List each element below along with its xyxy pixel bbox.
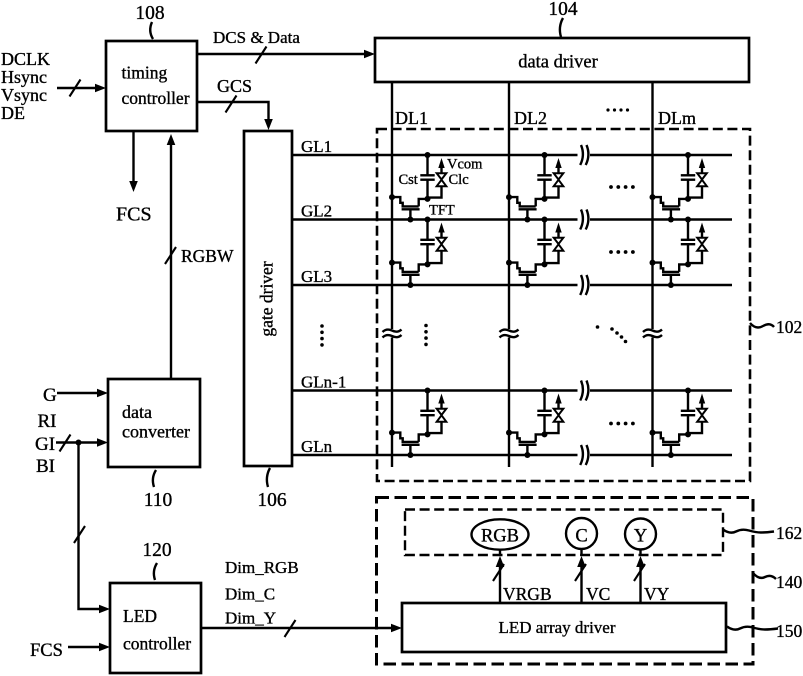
vertical ellipsis in DL1 column bbox=[424, 324, 428, 347]
liquid crystal capacitor Clc (hourglass) bbox=[437, 409, 447, 422]
svg-text:GLn-1: GLn-1 bbox=[301, 373, 346, 392]
data converter U110 box bbox=[108, 379, 200, 467]
wire: FCS output arrow from timing controller bbox=[129, 131, 138, 192]
TFT transistor bbox=[650, 430, 687, 458]
data line DL2 bbox=[500, 82, 519, 467]
gate line GLn-1 bbox=[292, 381, 732, 401]
storage capacitor Cst bbox=[537, 175, 551, 179]
TFT transistor bbox=[389, 260, 426, 288]
wire: Cst bottom to pixel node bbox=[542, 180, 548, 202]
svg-text:106: 106 bbox=[257, 490, 287, 511]
label 140 bbox=[776, 572, 803, 592]
svg-text:timing: timing bbox=[122, 63, 168, 83]
label DLm bbox=[658, 108, 696, 128]
wire: GCS from timing controller to gate driver bbox=[197, 96, 273, 131]
leader squiggle for 140 bbox=[753, 573, 776, 579]
wire: G input arrow into data converter bbox=[57, 389, 108, 398]
LED controller U120 box bbox=[110, 583, 201, 673]
wire: DCS & Data bus from timing controller to data driver bbox=[197, 47, 375, 64]
svg-text:VY: VY bbox=[644, 584, 670, 604]
leader squiggle for 150 bbox=[727, 627, 778, 630]
Vcom arrow bbox=[699, 223, 705, 238]
wire: Clc to pixel node bbox=[688, 186, 702, 197]
svg-text:Y: Y bbox=[634, 527, 647, 547]
leader tick for 106 bbox=[267, 468, 270, 487]
svg-text:VC: VC bbox=[586, 584, 610, 604]
svg-text:gate driver: gate driver bbox=[257, 261, 277, 336]
label DL1 bbox=[395, 108, 428, 128]
pixel cell row 2 col 2 bbox=[506, 217, 563, 289]
svg-text:120: 120 bbox=[142, 540, 171, 561]
svg-text:GLn: GLn bbox=[301, 437, 333, 456]
pixel cell row 1 col 1 bbox=[389, 152, 483, 223]
wire: Cst connection to gate line above bbox=[685, 217, 691, 240]
wire: Clc to pixel node bbox=[545, 186, 559, 197]
storage capacitor Cst bbox=[681, 175, 695, 179]
wire: dimming bus from LED controller to LED array driver bbox=[201, 620, 402, 637]
pixel cell row 1 col 2 bbox=[506, 152, 563, 223]
svg-text:150: 150 bbox=[776, 621, 803, 641]
svg-text:Cst: Cst bbox=[398, 172, 417, 188]
pixel cell row 3 col 3 bbox=[650, 388, 707, 459]
TFT transistor bbox=[389, 430, 426, 458]
label GLn-1 bbox=[301, 373, 346, 392]
label FCS (top) bbox=[116, 204, 152, 226]
Vcom arrow bbox=[438, 394, 444, 409]
leader tick for 104 bbox=[560, 18, 563, 37]
svg-text:Dim_Y: Dim_Y bbox=[225, 609, 276, 628]
svg-text:controller: controller bbox=[123, 634, 191, 654]
svg-text:162: 162 bbox=[776, 523, 802, 543]
wire: Clc to pixel node bbox=[545, 422, 559, 433]
label G input bbox=[43, 385, 57, 406]
liquid crystal capacitor Clc (hourglass) bbox=[437, 238, 447, 251]
node: junction on RGB input bus bbox=[76, 440, 82, 446]
svg-text:DE: DE bbox=[1, 103, 25, 123]
liquid crystal capacitor Clc (hourglass) bbox=[697, 173, 707, 186]
storage capacitor Cst bbox=[420, 411, 434, 415]
svg-text:GI: GI bbox=[35, 434, 55, 455]
label GL2 bbox=[301, 202, 332, 221]
gate line GL2 bbox=[292, 210, 732, 230]
wire: VRGB from LED array driver up to RGB bbox=[493, 556, 504, 603]
wire: Cst bottom to pixel node bbox=[685, 245, 691, 268]
data driver U104 box bbox=[375, 38, 749, 82]
wire: stub below Y circle bbox=[639, 550, 641, 557]
svg-text:G: G bbox=[43, 385, 57, 406]
Vcom arrow bbox=[699, 394, 705, 409]
labels RI GI BI inputs bbox=[35, 411, 57, 477]
svg-text:LED: LED bbox=[123, 606, 157, 626]
data line DL1 bbox=[383, 82, 402, 467]
Vcom arrow bbox=[438, 223, 444, 238]
label GL3 bbox=[301, 267, 332, 286]
wire: Clc to pixel node bbox=[545, 251, 559, 263]
storage capacitor Cst bbox=[681, 240, 695, 244]
wire: Cst connection to gate line above bbox=[542, 388, 548, 411]
wire: Cst connection to gate line above bbox=[685, 152, 691, 175]
liquid crystal capacitor Clc (hourglass) bbox=[554, 238, 564, 251]
input signal labels DCLK Hsync Vsync DE bbox=[1, 49, 50, 123]
label 150 bbox=[776, 621, 803, 641]
svg-text:data driver: data driver bbox=[518, 53, 598, 73]
svg-text:GL2: GL2 bbox=[301, 202, 332, 221]
svg-text:DCLK: DCLK bbox=[1, 49, 50, 69]
gate driver U106 box bbox=[244, 131, 292, 466]
label 120 bbox=[142, 540, 171, 561]
storage capacitor Cst bbox=[537, 240, 551, 244]
label 108 bbox=[135, 3, 164, 24]
leader tick for 110 bbox=[153, 470, 156, 487]
svg-text:Dim_C: Dim_C bbox=[225, 585, 275, 604]
dashed panel box 102 bbox=[377, 129, 750, 481]
liquid crystal capacitor Clc (hourglass) bbox=[697, 409, 707, 422]
wire: Cst bottom to pixel node bbox=[425, 180, 431, 202]
svg-text:102: 102 bbox=[776, 317, 802, 337]
svg-text:RI: RI bbox=[38, 411, 57, 432]
svg-text:BI: BI bbox=[36, 456, 55, 477]
label 106 bbox=[257, 490, 287, 511]
storage capacitor Cst bbox=[420, 240, 434, 244]
wire: Clc to pixel node bbox=[688, 251, 702, 263]
wire: Cst connection to gate line above bbox=[685, 388, 691, 411]
svg-text:GL3: GL3 bbox=[301, 267, 332, 286]
wire: Cst connection to gate line above bbox=[425, 217, 431, 240]
Y LED circle bbox=[625, 519, 656, 550]
wire: input bus into timing controller with slash bbox=[57, 80, 106, 97]
TFT transistor bbox=[506, 194, 543, 222]
leader squiggle for 162 bbox=[723, 530, 774, 533]
svg-text:RGB: RGB bbox=[481, 527, 519, 547]
wire: Cst bottom to pixel node bbox=[685, 180, 691, 202]
svg-text:controller: controller bbox=[122, 88, 190, 108]
wire: Cst connection to gate line above bbox=[425, 388, 431, 411]
svg-text:Vsync: Vsync bbox=[1, 85, 47, 105]
svg-text:VRGB: VRGB bbox=[503, 584, 552, 604]
svg-text:DL2: DL2 bbox=[514, 108, 547, 128]
svg-text:FCS: FCS bbox=[30, 641, 63, 661]
label RGBW bbox=[181, 246, 234, 266]
liquid crystal capacitor Clc (hourglass) bbox=[697, 238, 707, 251]
TFT transistor bbox=[650, 194, 687, 222]
label FCS (bottom input) bbox=[30, 641, 63, 661]
wire: RI/GI/BI bus into data converter with slash bbox=[56, 435, 108, 452]
TFT transistor bbox=[506, 260, 543, 288]
wire: branch from junction down to LED controller bbox=[74, 443, 110, 614]
RGB LED oval bbox=[472, 519, 529, 549]
pixel cell row 3 col 2 bbox=[506, 388, 563, 459]
TFT transistor bbox=[389, 194, 426, 222]
label DL2 bbox=[514, 108, 547, 128]
pixel cell row 2 col 1 bbox=[389, 217, 446, 289]
label GLn bbox=[301, 437, 333, 456]
pixel cell row 2 col 3 bbox=[650, 217, 707, 289]
svg-text:110: 110 bbox=[144, 490, 173, 511]
wire: Cst bottom to pixel node bbox=[542, 245, 548, 268]
label 162 bbox=[776, 523, 802, 543]
dashed LED lamp box 162 bbox=[405, 510, 723, 556]
wire: RGBW bus from data converter up to timing controller bbox=[165, 134, 176, 378]
data line DLm bbox=[643, 82, 662, 467]
pixel cell row 1 col 3 bbox=[650, 152, 707, 223]
C LED circle bbox=[566, 518, 597, 549]
svg-text:Dim_RGB: Dim_RGB bbox=[225, 558, 299, 577]
ellipsis dots in pixel row at y=187 bbox=[609, 185, 635, 189]
wire: FCS input arrow into LED controller bbox=[68, 643, 110, 652]
svg-text:LED array driver: LED array driver bbox=[498, 618, 615, 637]
Vcom arrow bbox=[699, 158, 705, 173]
storage capacitor Cst bbox=[681, 411, 695, 415]
svg-text:FCS: FCS bbox=[116, 204, 152, 226]
storage capacitor Cst bbox=[537, 411, 551, 415]
gate line GL1 bbox=[292, 145, 732, 165]
gate line GLn bbox=[292, 445, 732, 465]
svg-text:C: C bbox=[575, 527, 587, 547]
liquid crystal capacitor Clc (hourglass) bbox=[554, 409, 564, 422]
wire: Cst connection to gate line above bbox=[542, 217, 548, 240]
svg-text:GL1: GL1 bbox=[301, 137, 332, 156]
label DCS & Data bbox=[213, 28, 300, 47]
ellipsis dots between DL2 and DLm labels bbox=[606, 108, 629, 111]
wire: Cst connection to gate line above bbox=[542, 152, 548, 175]
svg-text:DLm: DLm bbox=[658, 108, 696, 128]
svg-text:104: 104 bbox=[548, 0, 578, 20]
vertical ellipsis left of panel bbox=[320, 324, 324, 347]
wire: stub below C circle bbox=[580, 549, 582, 556]
label 104 bbox=[548, 0, 578, 20]
label GL1 bbox=[301, 137, 332, 156]
wire: Clc to pixel node bbox=[428, 422, 442, 433]
wire: Cst connection to gate line above bbox=[425, 152, 431, 175]
labels VRGB VC VY bbox=[503, 584, 670, 604]
label 110 bbox=[144, 490, 173, 511]
svg-text:Hsync: Hsync bbox=[1, 67, 47, 87]
label GCS bbox=[217, 76, 252, 96]
wire: Clc to pixel node bbox=[428, 186, 442, 197]
svg-text:RGBW: RGBW bbox=[181, 246, 234, 266]
svg-text:108: 108 bbox=[135, 3, 164, 24]
dashed backlight box 140 bbox=[377, 498, 754, 665]
svg-text:140: 140 bbox=[776, 572, 803, 592]
svg-text:DCS & Data: DCS & Data bbox=[213, 28, 300, 47]
Vcom arrow bbox=[555, 394, 561, 409]
liquid crystal capacitor Clc (hourglass) bbox=[554, 173, 564, 186]
LED array driver U150 box bbox=[402, 603, 726, 652]
wire: stub below RGB oval bbox=[499, 550, 501, 557]
TFT transistor bbox=[650, 260, 687, 288]
pixel cell row 3 col 1 bbox=[389, 388, 446, 459]
svg-text:Clc: Clc bbox=[449, 172, 469, 188]
wire: Cst bottom to pixel node bbox=[685, 416, 691, 438]
ellipsis dots in pixel row at y=252 bbox=[609, 250, 635, 254]
leader tick for 108 bbox=[150, 22, 153, 39]
svg-text:DL1: DL1 bbox=[395, 108, 428, 128]
liquid crystal capacitor Clc (hourglass) bbox=[437, 173, 447, 186]
Vcom arrow bbox=[555, 158, 561, 173]
svg-text:GCS: GCS bbox=[217, 76, 252, 96]
wire: Cst bottom to pixel node bbox=[425, 416, 431, 438]
label 102 bbox=[776, 317, 802, 337]
svg-text:Vcom: Vcom bbox=[447, 157, 483, 173]
gate line GL3 bbox=[292, 275, 732, 295]
svg-text:converter: converter bbox=[122, 422, 190, 442]
wire: Clc to pixel node bbox=[428, 251, 442, 263]
ellipsis dots in pixel row at y=423.5 bbox=[609, 422, 635, 426]
TFT transistor bbox=[506, 430, 543, 458]
wire: VC from LED array driver up to C bbox=[575, 556, 586, 603]
Vcom arrow bbox=[555, 223, 561, 238]
svg-text:data: data bbox=[122, 402, 152, 422]
labels Dim_RGB Dim_C Dim_Y bbox=[225, 558, 299, 628]
wire: Cst bottom to pixel node bbox=[425, 245, 431, 268]
Vcom arrow bbox=[438, 158, 444, 173]
timing controller U108 box bbox=[106, 41, 197, 131]
svg-text:TFT: TFT bbox=[429, 203, 455, 219]
wire: Clc to pixel node bbox=[688, 422, 702, 433]
leader squiggle for 102 bbox=[750, 323, 774, 327]
storage capacitor Cst bbox=[420, 175, 434, 179]
wire: Cst bottom to pixel node bbox=[542, 416, 548, 438]
diagonal ellipsis in panel bbox=[596, 325, 628, 343]
leader tick for 120 bbox=[154, 563, 157, 580]
wire: VY from LED array driver up to Y bbox=[634, 556, 645, 603]
